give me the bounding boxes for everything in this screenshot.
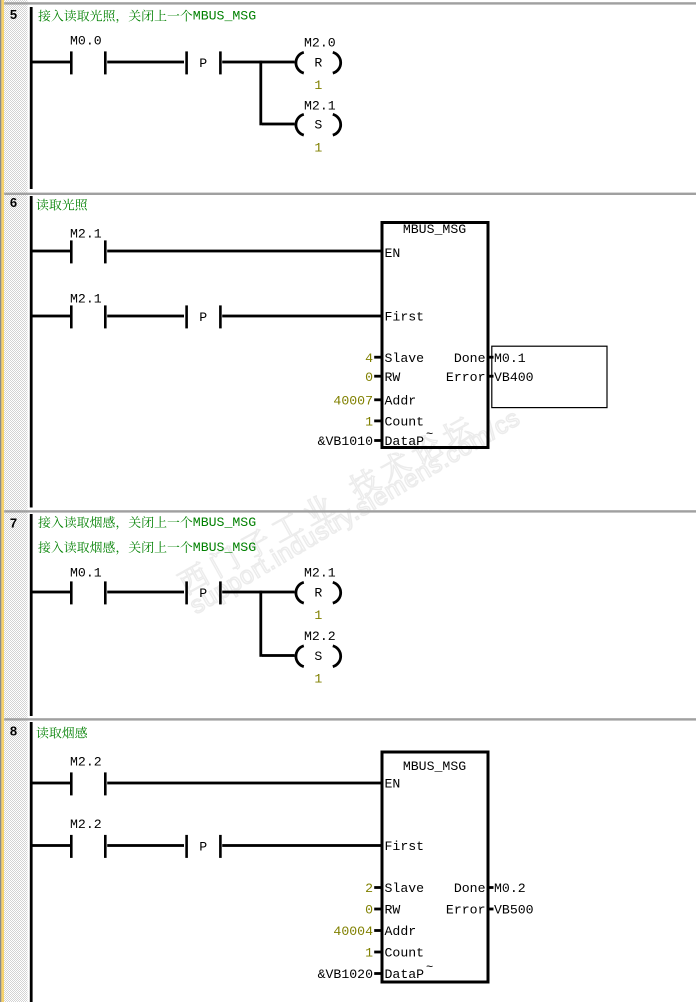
svg-text:First: First (385, 839, 425, 854)
coil M2.1 S (296, 114, 304, 135)
coil M2.1 R (296, 582, 304, 603)
wire P to branch (222, 61, 262, 64)
svg-text:First: First (385, 310, 425, 325)
svg-text:8: 8 (10, 724, 17, 739)
wire branch to R coil (262, 61, 295, 64)
power rail network 8 (30, 722, 33, 1002)
svg-text:M2.2: M2.2 (70, 817, 102, 832)
svg-text:MBUS_MSG: MBUS_MSG (193, 540, 256, 555)
svg-text:M2.1: M2.1 (70, 227, 102, 242)
svg-text:P: P (199, 840, 207, 855)
svg-text:R: R (314, 586, 322, 601)
block MBUS_MSG network 8 (382, 752, 488, 982)
svg-text:EN: EN (385, 777, 401, 792)
wire rail to contact M0.1 (33, 591, 71, 594)
svg-text:40004: 40004 (333, 924, 373, 939)
network separator bar (4, 718, 696, 720)
wire rail to contact EN rung net8 (33, 782, 71, 785)
contact M2.2 EN rung (70, 772, 73, 795)
svg-text:M2.2: M2.2 (304, 629, 336, 644)
yellow margin strip (1, 0, 4, 1002)
branch vertical wire network 7 (259, 591, 262, 657)
svg-text:1: 1 (314, 78, 322, 93)
P contact First rung (185, 305, 188, 328)
watermark siemens forum url text (185, 404, 525, 619)
svg-text:Addr: Addr (385, 394, 417, 409)
svg-text:M0.0: M0.0 (70, 34, 102, 49)
wire contact to P (107, 61, 184, 64)
selection rectangle around outputs (492, 346, 607, 407)
svg-text:~: ~ (426, 961, 433, 975)
svg-text:MBUS_MSG: MBUS_MSG (403, 759, 466, 774)
wire P to block First net8 (222, 844, 381, 847)
svg-text:P: P (199, 56, 207, 71)
power rail network 7 (30, 514, 33, 716)
svg-text:7: 7 (10, 516, 17, 531)
svg-text:M2.1: M2.1 (304, 566, 336, 581)
wire contact to P First rung (107, 315, 184, 318)
svg-text:MBUS_MSG: MBUS_MSG (193, 515, 256, 530)
wire contact to P net8 (107, 844, 184, 847)
svg-text:RW: RW (385, 903, 401, 918)
svg-text:M2.1: M2.1 (304, 99, 336, 114)
wire rail to contact EN rung (33, 250, 71, 253)
wire P to block First (222, 315, 381, 318)
contact M2.1 First rung (70, 305, 73, 328)
svg-text:R: R (314, 56, 322, 71)
contact M2.1 EN rung (70, 240, 73, 263)
coil M2.2 S (296, 646, 304, 667)
svg-text:6: 6 (10, 195, 17, 210)
wire rail to contact First rung net8 (33, 844, 71, 847)
svg-text:Slave: Slave (385, 881, 425, 896)
svg-text:P: P (199, 586, 207, 601)
svg-text:1: 1 (365, 946, 373, 961)
svg-text:EN: EN (385, 246, 401, 261)
svg-text:S: S (314, 649, 322, 664)
svg-text:40007: 40007 (333, 394, 373, 409)
svg-text:M0.1: M0.1 (70, 566, 102, 581)
wire branch to S coil net7 (262, 654, 295, 657)
svg-text:M2.2: M2.2 (70, 755, 102, 770)
wire contact to block EN net8 (107, 782, 381, 785)
svg-text:Slave: Slave (385, 351, 425, 366)
svg-text:M0.2: M0.2 (494, 881, 526, 896)
wire branch to R coil (262, 591, 295, 594)
svg-text:Count: Count (385, 946, 425, 961)
svg-text:Done: Done (454, 351, 486, 366)
svg-text:Done: Done (454, 881, 486, 896)
svg-text:1: 1 (365, 415, 373, 430)
left border line (0, 0, 1, 1002)
svg-text:Error: Error (446, 370, 486, 385)
network separator bar (4, 510, 696, 512)
wire contact to block EN (107, 250, 381, 253)
P contact net8 (185, 835, 188, 858)
svg-text:Addr: Addr (385, 924, 417, 939)
P contact network 7 (185, 581, 188, 604)
network 7 comment line 2 (38, 541, 192, 554)
network 8 comment (36, 727, 87, 739)
svg-text:S: S (314, 118, 322, 133)
svg-text:VB400: VB400 (494, 370, 534, 385)
svg-text:M2.1: M2.1 (70, 292, 102, 307)
svg-text:P: P (199, 310, 207, 325)
wire P to branch (222, 591, 262, 594)
contact M0.0 (70, 51, 73, 74)
block MBUS_MSG network 6 (382, 223, 488, 448)
P contact (185, 51, 188, 74)
network separator bar (4, 193, 696, 195)
branch vertical wire (259, 61, 262, 126)
contact M2.2 First rung (70, 835, 73, 858)
network 5 comment (38, 10, 192, 23)
svg-text:DataP: DataP (385, 967, 425, 982)
svg-text:1: 1 (314, 141, 322, 156)
svg-text:&VB1010: &VB1010 (318, 434, 373, 449)
gutter dither column (4, 0, 27, 1002)
svg-text:2: 2 (365, 881, 373, 896)
svg-text:Count: Count (385, 415, 425, 430)
svg-text:0: 0 (365, 370, 373, 385)
contact M0.1 (70, 581, 73, 604)
wire rail to contact First rung (33, 315, 71, 318)
svg-text:VB500: VB500 (494, 903, 534, 918)
svg-text:M0.1: M0.1 (494, 351, 526, 366)
power rail network 5 (30, 7, 33, 189)
svg-text:0: 0 (365, 903, 373, 918)
wire branch to S coil (262, 123, 295, 126)
svg-text:DataP: DataP (385, 434, 425, 449)
svg-text:4: 4 (365, 351, 373, 366)
svg-text:MBUS_MSG: MBUS_MSG (193, 9, 256, 24)
svg-text:M2.0: M2.0 (304, 36, 336, 51)
wire contact to P (107, 591, 184, 594)
wire rail to contact (33, 61, 71, 64)
svg-text:5: 5 (10, 7, 17, 22)
network 6 comment (36, 199, 86, 211)
svg-text:&VB1020: &VB1020 (318, 967, 373, 982)
svg-text:1: 1 (314, 608, 322, 623)
svg-text:Error: Error (446, 903, 486, 918)
svg-text:~: ~ (426, 428, 433, 442)
network 7 comment line 1 (38, 516, 192, 529)
coil M2.0 R (296, 52, 304, 73)
svg-text:RW: RW (385, 370, 401, 385)
svg-text:1: 1 (314, 672, 322, 687)
power rail network 6 (30, 196, 33, 508)
watermark siemens forum big text (175, 414, 476, 597)
network separator bar (4, 2, 696, 4)
svg-text:MBUS_MSG: MBUS_MSG (403, 222, 466, 237)
